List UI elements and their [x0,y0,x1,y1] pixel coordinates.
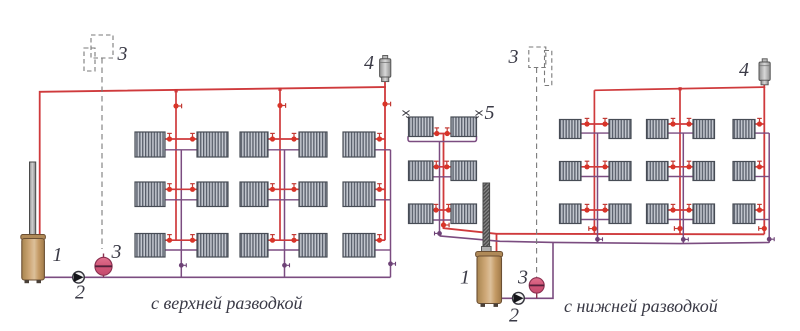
valves middle column row2 [434,161,439,169]
radiator row1 col2 left [240,132,268,157]
valves middle column top row [434,128,439,136]
valve on riser 3 below main [382,101,390,106]
wire: purple return riser middle column [439,142,441,236]
svg-text:1: 1 [460,267,470,289]
valves col3 right grid [757,118,762,126]
radiator row3 middle-left [409,204,434,224]
air vent cock on left top radiator [403,111,410,119]
radiator row1 col2 right [693,120,715,139]
radiator row2 col2 left [240,182,268,207]
valves col1 right grid [584,118,589,126]
svg-text:2: 2 [75,282,85,304]
svg-text:4: 4 [739,59,749,81]
node: junction on top main, riser 2 [278,88,281,91]
membrane expansion tank 3 (right system) [529,278,544,299]
wire: red connections row2 col1 [165,188,197,190]
wire: purple connections col3 [375,149,391,151]
wire: return drop to pump [502,242,554,298]
valve on return riser 2 [282,263,289,268]
wire: purple return riser 1 [597,133,599,243]
radiator row2 middle-right [451,161,477,181]
radiator row3 col2 left [647,204,669,224]
wire: dashed connection of right expansion tank [536,68,538,278]
svg-text:с нижней разводкой: с нижней разводкой [564,296,718,316]
wire: purple connection row2 middle column [433,176,451,178]
chimney with hatch [483,183,490,255]
wire: purple connection row3 middle column [433,219,451,221]
radiator row1 col2 right [299,132,327,157]
radiator row1 col2 left [647,120,669,139]
radiator row2 middle-left [409,161,434,181]
svg-text:2: 2 [509,305,519,327]
wire: purple connections col2 [268,149,299,151]
valve on riser 1 above main [589,226,597,231]
radiator row3 col2 right [299,234,327,258]
boiler 1 (right system) [476,183,503,307]
radiator row1 col3 [343,132,375,157]
radiator row2 col2 right [299,182,327,207]
radiator row3 col3 [733,204,755,224]
wire: red connections row3 col1 [165,239,197,241]
wire: red connection top row middle column [433,133,451,135]
valve on riser 1 below main [173,103,181,108]
radiator row3 col1 right [197,234,228,258]
wire: purple return riser 3 [390,150,392,277]
wire: purple connections col1 right grid [581,132,609,134]
wire: red connections col2 right grid [668,123,693,125]
wire: red connections row1 col2 [268,138,299,140]
wire: red connections row2 col2 [268,188,299,190]
radiator row1 col3 [733,120,755,139]
radiator valves row3 col2 [270,235,275,243]
expansion tank (dashed, open type) right system [529,47,552,86]
valve on middle return riser [435,231,442,236]
wire: purple connections col3 right grid [755,132,769,134]
svg-text:3: 3 [117,43,128,65]
radiator valves row3 col1 [167,235,172,243]
wire: purple return riser 2 [284,150,286,277]
wire: red riser 1 (left system) [175,91,177,241]
radiator row2 col2 left [647,162,669,181]
wire: red connection row3 middle column [433,209,451,211]
boiler body [477,256,502,304]
chimney collar [482,247,492,254]
wire: purple connections col2 right grid [668,132,693,134]
wire: red connections row1 col1 [165,138,197,140]
valves middle column row3 [433,204,438,212]
wire: stub under left air vent [384,81,386,88]
valve on middle riser above main [441,222,449,227]
wire: bottom return main (left system) [44,276,391,278]
wire: supply riser from boiler + top supply main + far riser (red) [40,87,385,240]
pump 2 (right system) [513,292,525,304]
wire: dashed connection of expansion tank [101,58,103,249]
wire: red connections col1 right grid [581,123,609,125]
radiator row2 col3 [343,182,375,207]
boiler 1 (left system) [21,162,46,283]
valve on return riser 2 [681,237,688,242]
radiator row2 col1 right [197,182,228,207]
wire: air line at top (red) [594,87,764,90]
air vent 4 (left system) [380,56,391,82]
radiator row2 col2 right [693,162,715,181]
node: air line junction riser 2 [679,87,682,90]
radiator row3 col1 left [560,204,582,224]
valve on return riser 3 [388,261,395,266]
membrane expansion tank 3 (left system) [95,254,112,278]
valve on riser 3 above main [759,226,767,231]
radiator row1 col1 right [197,132,228,157]
boiler feet [25,280,30,283]
valves col2 right grid [670,118,675,126]
radiator row3 col2 right [693,204,715,224]
node: junction on top main, riser 1 [175,89,178,92]
wire: purple loop under top radiators (item 5) [408,136,477,141]
svg-text:3: 3 [111,241,122,263]
svg-text:3: 3 [517,267,528,289]
svg-text:5: 5 [485,102,495,124]
wire: red connections row3 col2 [268,239,299,241]
radiator row2 col1 right [609,162,631,181]
wire: purple return main (right system) [440,236,770,244]
radiator valves row2 col2 [270,184,275,192]
radiator row1 col1 left [135,132,165,157]
svg-text:1: 1 [53,244,63,266]
air vent cock on right top radiator [476,111,483,119]
expansion tank (dashed, open type) left system [84,35,113,71]
wire: red connections col3 right grid [755,123,764,125]
chimney [30,162,36,237]
wire: purple return riser 1 [180,150,182,277]
wire: red connection row2 middle column [433,166,451,168]
wire: red riser 3 (right grid) [763,87,765,234]
svg-text:с верхней разводкой: с верхней разводкой [151,293,303,313]
radiator row3 col3 [343,234,375,258]
radiator row3 middle-right [451,204,477,224]
svg-text:4: 4 [364,52,374,74]
air vent 4 (right system) [759,59,770,85]
radiator row3 col1 left [135,234,165,258]
valve on riser 2 below main [277,103,285,108]
valve on riser 2 above main [674,226,682,231]
wire: red supply main (right system) [444,134,765,235]
radiator valves row2 col1 [167,184,172,192]
radiator row1 col1 right [609,120,631,139]
wire: red connections rows col3 [375,138,385,140]
wire: red riser 2 (right grid) [679,89,681,235]
pump 2 (left system) [73,272,85,284]
radiator valves row1 col2 [270,133,275,141]
radiator valves row1 col1 [167,133,172,141]
wire: purple return riser 3 (right edge) [768,133,770,243]
wire: red riser 1 (right grid) up to air line [593,90,595,234]
radiator row1 col1 left (right grid) [560,120,582,139]
wire: purple return riser 2 [682,133,684,244]
radiator row2 col1 left [560,162,582,181]
radiator row3 col2 left [240,234,268,258]
valve on return riser 3 [767,237,774,242]
boiler feet [481,304,486,307]
radiator top row middle-right (item 5) [451,117,477,137]
radiator row3 col1 right [609,204,631,224]
valve on return riser 1 [179,263,186,268]
boiler top rim [476,252,503,258]
svg-text:3: 3 [508,46,519,68]
wire: purple connections col1 [165,149,197,151]
wire: red riser 2 (left system) [279,89,281,240]
radiator row2 col3 [733,162,755,181]
wire: stub under right air vent [763,84,765,88]
radiator top row middle-left (item 5) [409,117,434,137]
boiler top rim [21,235,46,240]
wire: red pipe from boiler to main [496,234,498,253]
valve on return riser 1 [595,237,602,242]
boiler body [22,239,45,281]
radiator valves col3 [377,133,382,141]
radiator row2 col1 left [135,182,165,207]
